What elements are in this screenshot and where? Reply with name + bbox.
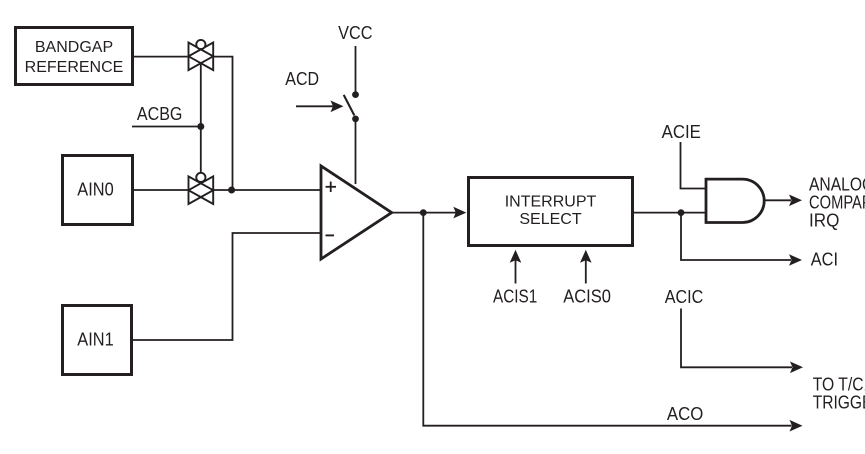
svg-text:ACBG: ACBG xyxy=(137,104,183,124)
svg-text:REFERENCE: REFERENCE xyxy=(25,59,124,76)
svg-text:AIN1: AIN1 xyxy=(77,330,113,350)
svg-text:ACIS0: ACIS0 xyxy=(563,286,611,306)
svg-text:ANALOG: ANALOG xyxy=(809,174,865,194)
svg-text:TRIGGER MUX: TRIGGER MUX xyxy=(813,393,865,413)
svg-text:ACIE: ACIE xyxy=(662,122,701,142)
svg-text:ACO: ACO xyxy=(667,404,703,424)
svg-text:INTERRUPT: INTERRUPT xyxy=(505,194,597,211)
svg-text:IRQ: IRQ xyxy=(809,210,839,230)
svg-text:AIN0: AIN0 xyxy=(77,180,113,200)
svg-text:VCC: VCC xyxy=(338,23,372,43)
svg-text:ACIC: ACIC xyxy=(665,287,704,307)
svg-text:TO T/C1 CAPTURE: TO T/C1 CAPTURE xyxy=(813,375,865,395)
svg-text:BANDGAP: BANDGAP xyxy=(35,39,113,56)
svg-text:SELECT: SELECT xyxy=(519,211,581,228)
svg-text:ACI: ACI xyxy=(811,250,838,270)
svg-text:ACIS1: ACIS1 xyxy=(493,286,537,306)
svg-text:ACD: ACD xyxy=(285,69,319,89)
